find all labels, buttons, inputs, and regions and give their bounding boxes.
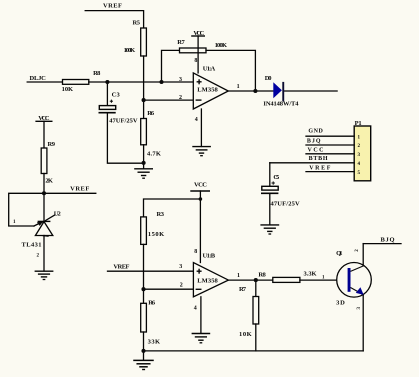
svg-text:BTBH: BTBH: [309, 156, 328, 162]
svg-text:VREF: VREF: [309, 165, 331, 171]
svg-text:LM358: LM358: [197, 277, 218, 284]
svg-text:R7: R7: [177, 39, 185, 46]
svg-text:2: 2: [355, 249, 360, 252]
svg-text:10K: 10K: [239, 331, 252, 338]
svg-text:150K: 150K: [148, 231, 164, 238]
svg-text:3: 3: [357, 307, 362, 310]
svg-text:47UF/25V: 47UF/25V: [271, 201, 300, 208]
svg-text:3: 3: [179, 77, 182, 83]
svg-text:BJQ: BJQ: [307, 138, 321, 144]
svg-text:U1:A: U1:A: [203, 66, 216, 73]
svg-text:100K: 100K: [215, 42, 227, 49]
svg-text:R6: R6: [147, 110, 155, 117]
svg-text:47UF/25V: 47UF/25V: [109, 118, 138, 125]
svg-text:2: 2: [179, 95, 182, 101]
svg-text:2K: 2K: [45, 177, 53, 184]
svg-text:R6: R6: [148, 299, 156, 306]
svg-text:C3: C3: [112, 92, 121, 99]
svg-text:D0: D0: [265, 75, 272, 82]
svg-text:33K: 33K: [148, 338, 161, 345]
svg-text:TL431: TL431: [22, 242, 42, 249]
svg-text:8: 8: [194, 58, 197, 64]
svg-text:R7: R7: [239, 286, 247, 293]
svg-text:VCC: VCC: [194, 182, 207, 189]
svg-text:1: 1: [237, 84, 240, 90]
svg-text:1: 1: [237, 273, 240, 279]
svg-text:VCC: VCC: [308, 148, 324, 154]
svg-text:1: 1: [13, 220, 16, 225]
svg-text:VCC: VCC: [38, 115, 50, 122]
svg-text:R8: R8: [258, 272, 266, 279]
svg-text:4.7K: 4.7K: [147, 150, 161, 157]
svg-text:VREF: VREF: [103, 3, 122, 10]
svg-text:R3: R3: [157, 211, 165, 218]
svg-text:100K: 100K: [124, 47, 136, 54]
svg-text:VREF: VREF: [70, 186, 89, 193]
svg-text:IN4148W/T4: IN4148W/T4: [263, 101, 299, 108]
svg-text:VCC: VCC: [193, 30, 204, 37]
svg-text:4: 4: [195, 117, 198, 123]
svg-text:Q1: Q1: [336, 250, 342, 257]
svg-text:U1:B: U1:B: [203, 253, 216, 260]
svg-text:3.3K: 3.3K: [304, 270, 317, 277]
svg-text:2: 2: [180, 282, 183, 288]
svg-text:GND: GND: [308, 129, 323, 135]
svg-text:BJQ: BJQ: [381, 236, 395, 243]
svg-text:2: 2: [37, 253, 40, 258]
svg-text:VREF: VREF: [113, 264, 129, 271]
svg-text:3D: 3D: [336, 300, 345, 307]
svg-text:U2: U2: [54, 210, 61, 217]
svg-text:10K: 10K: [62, 86, 74, 93]
svg-text:C5: C5: [273, 174, 280, 181]
svg-text:R9: R9: [48, 141, 56, 148]
svg-text:3: 3: [179, 264, 182, 270]
svg-text:R5: R5: [133, 20, 141, 27]
svg-text:LM358: LM358: [197, 87, 218, 94]
svg-text:P1: P1: [355, 120, 362, 127]
svg-text:4: 4: [194, 306, 197, 312]
svg-text:DLJC: DLJC: [30, 75, 47, 82]
svg-text:R8: R8: [93, 70, 101, 77]
svg-text:8: 8: [194, 249, 197, 255]
